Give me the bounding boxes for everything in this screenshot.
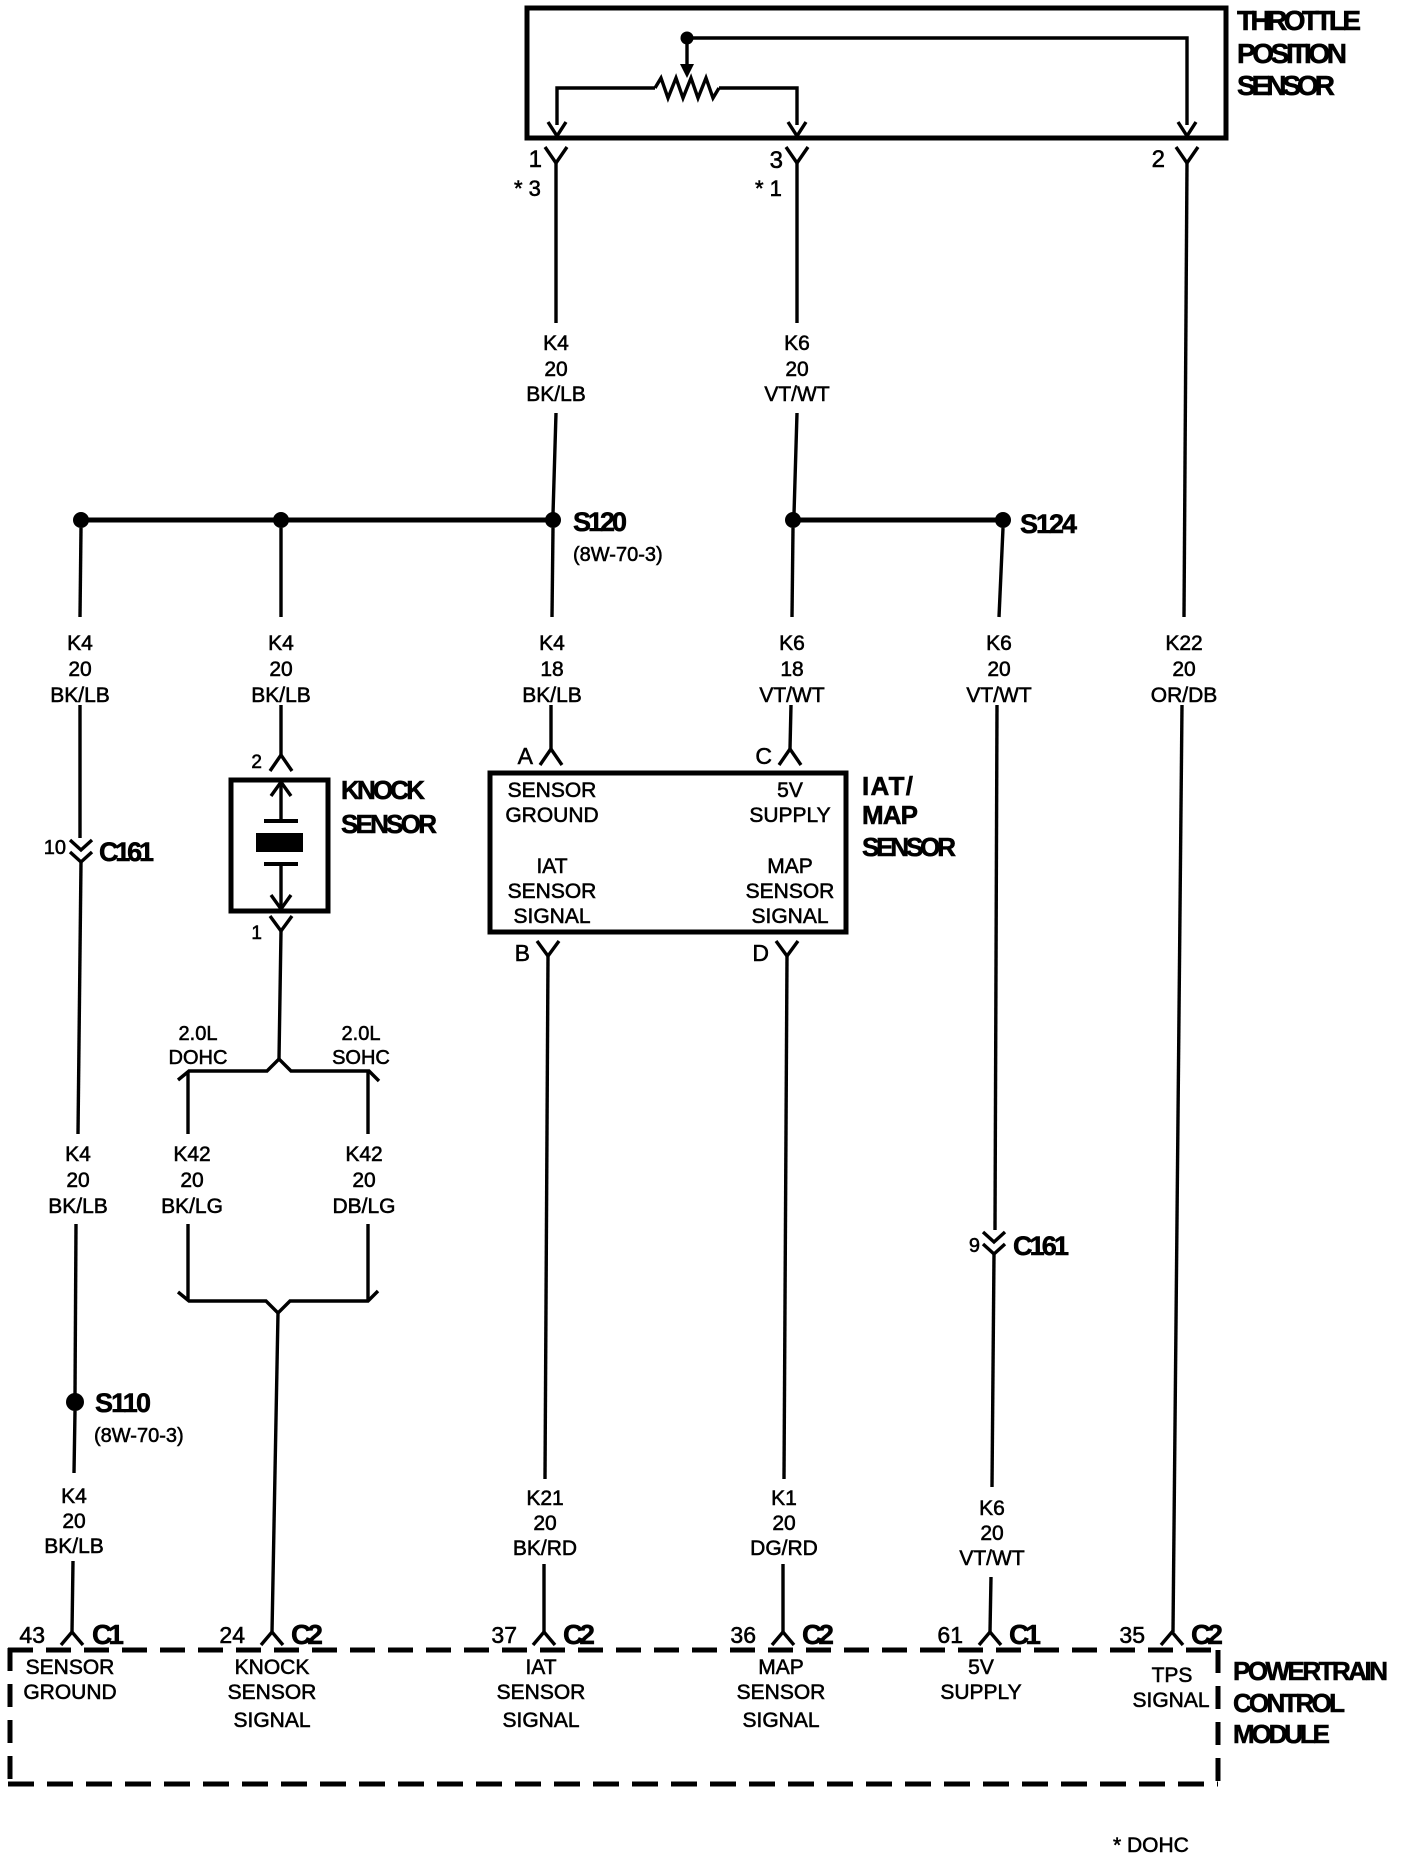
svg-text:BK/LB: BK/LB bbox=[526, 383, 586, 406]
PCM pin 37 C2 bbox=[533, 1632, 555, 1645]
svg-text:C: C bbox=[755, 743, 772, 769]
svg-text:SENSOR: SENSOR bbox=[497, 1681, 586, 1704]
wire MAP signal down bbox=[784, 956, 787, 1479]
svg-text:POSITION: POSITION bbox=[1237, 38, 1347, 69]
svg-text:K4: K4 bbox=[543, 332, 569, 355]
svg-text:D: D bbox=[752, 940, 769, 966]
svg-text:SIGNAL: SIGNAL bbox=[751, 905, 828, 928]
svg-text:C2: C2 bbox=[291, 1619, 323, 1650]
svg-text:20: 20 bbox=[1172, 658, 1195, 681]
PCM pin 36 C2 bbox=[772, 1632, 794, 1645]
svg-text:MAP: MAP bbox=[758, 1656, 804, 1679]
svg-text:SUPPLY: SUPPLY bbox=[940, 1681, 1021, 1704]
label K4 20 BK/LB bbox=[251, 632, 311, 707]
brace merge bottom bbox=[178, 1291, 378, 1313]
svg-text:C1: C1 bbox=[92, 1619, 124, 1650]
svg-text:SIGNAL: SIGNAL bbox=[502, 1709, 579, 1732]
arrow at pin 2 inside box bbox=[1178, 122, 1196, 136]
wire bbox=[75, 1224, 76, 1396]
svg-text:(8W-70-3): (8W-70-3) bbox=[573, 544, 663, 566]
svg-text:POWERTRAIN: POWERTRAIN bbox=[1233, 1656, 1388, 1686]
wire K6 from TPS pin 3 bbox=[795, 163, 798, 323]
svg-text:S124: S124 bbox=[1020, 509, 1077, 539]
svg-text:OR/DB: OR/DB bbox=[1151, 684, 1218, 707]
wire right lead to pin 3 bbox=[719, 88, 797, 125]
wire bbox=[790, 705, 791, 749]
svg-text:20: 20 bbox=[987, 658, 1010, 681]
svg-text:MAP: MAP bbox=[767, 855, 813, 878]
wire bbox=[549, 705, 552, 749]
svg-text:20: 20 bbox=[544, 358, 567, 381]
knock sensor internal arrow up bbox=[271, 782, 291, 796]
svg-text:9: 9 bbox=[969, 1235, 980, 1257]
svg-text:VT/WT: VT/WT bbox=[759, 684, 824, 707]
svg-text:K6: K6 bbox=[779, 632, 805, 655]
svg-text:SIGNAL: SIGNAL bbox=[233, 1709, 310, 1732]
svg-text:* 1: * 1 bbox=[755, 176, 782, 201]
svg-text:VT/WT: VT/WT bbox=[966, 684, 1031, 707]
wire column E 5V supply bbox=[999, 528, 1003, 617]
svg-text:20: 20 bbox=[785, 358, 808, 381]
wiper arrow bbox=[685, 42, 688, 64]
svg-text:K4: K4 bbox=[65, 1143, 91, 1166]
svg-text:20: 20 bbox=[62, 1510, 85, 1533]
wire bbox=[992, 1254, 994, 1487]
pin 1 TPS connector bbox=[545, 147, 567, 163]
wire to PCM pin 24 bbox=[272, 1313, 278, 1632]
IAT/MAP pin D connector bbox=[776, 941, 798, 956]
label K6 18 VT/WT bbox=[759, 632, 824, 707]
svg-text:18: 18 bbox=[540, 658, 563, 681]
PCM pin 24 C2 bbox=[261, 1632, 283, 1645]
wire column C below S120 bbox=[552, 528, 553, 617]
svg-text:KNOCK: KNOCK bbox=[235, 1656, 310, 1679]
svg-text:MODULE: MODULE bbox=[1233, 1719, 1330, 1749]
knock element bottom plate bbox=[264, 862, 298, 866]
svg-text:K4: K4 bbox=[268, 632, 294, 655]
svg-text:18: 18 bbox=[780, 658, 803, 681]
svg-text:K4: K4 bbox=[61, 1485, 87, 1508]
wire IAT signal down bbox=[545, 956, 548, 1479]
knock element top plate bbox=[264, 819, 298, 823]
svg-text:2: 2 bbox=[251, 752, 262, 773]
IAT/MAP pin A connector bbox=[540, 749, 562, 765]
svg-text:5V: 5V bbox=[968, 1656, 994, 1679]
svg-text:SENSOR: SENSOR bbox=[26, 1656, 115, 1679]
PCM pin 61 C1 bbox=[979, 1632, 1001, 1645]
label K22 20 OR/DB bbox=[1151, 632, 1218, 707]
svg-text:36: 36 bbox=[730, 1622, 756, 1648]
svg-text:K21: K21 bbox=[526, 1487, 563, 1510]
svg-text:BK/LG: BK/LG bbox=[161, 1195, 223, 1218]
svg-text:K6: K6 bbox=[979, 1497, 1005, 1520]
wire bbox=[78, 862, 81, 1134]
connector C161 pin 9 bbox=[983, 1232, 1005, 1242]
label K4 18 BK/LB bbox=[522, 632, 582, 707]
svg-text:K42: K42 bbox=[345, 1143, 382, 1166]
svg-text:BK/LB: BK/LB bbox=[48, 1195, 108, 1218]
arrow at pin 1 inside box bbox=[548, 122, 566, 136]
wire column A upper bbox=[80, 528, 81, 617]
label THROTTLE POSITION SENSOR bbox=[1237, 5, 1361, 101]
branch wire left bbox=[186, 1071, 189, 1134]
IAT/MAP sensor box bbox=[490, 773, 846, 932]
svg-text:TPS: TPS bbox=[1152, 1664, 1193, 1687]
svg-text:BK/LB: BK/LB bbox=[44, 1535, 104, 1558]
svg-text:KNOCK: KNOCK bbox=[341, 775, 425, 805]
throttle position sensor box bbox=[527, 8, 1226, 138]
svg-text:C161: C161 bbox=[99, 837, 154, 867]
wire left lead to pin 1 bbox=[557, 88, 655, 125]
svg-text:20: 20 bbox=[533, 1512, 556, 1535]
IAT/MAP pin C connector bbox=[779, 749, 801, 765]
svg-text:C2: C2 bbox=[802, 1619, 834, 1650]
wire bbox=[995, 705, 997, 1230]
svg-text:5V: 5V bbox=[777, 779, 803, 802]
wire bbox=[72, 1561, 73, 1632]
wire K4 from TPS pin 1 bbox=[554, 163, 557, 323]
wire bbox=[542, 1564, 545, 1632]
brace split 2.0L DOHC / SOHC bbox=[178, 1059, 379, 1081]
label K6 20 VT/WT bbox=[959, 1497, 1024, 1570]
svg-text:BK/LB: BK/LB bbox=[50, 684, 110, 707]
label K4 20 BK/LB bbox=[50, 632, 110, 707]
wire K22 from TPS pin 2 bbox=[1184, 163, 1187, 617]
svg-text:K6: K6 bbox=[784, 332, 810, 355]
label K4 20 BK/LB bbox=[526, 332, 586, 406]
svg-text:20: 20 bbox=[352, 1169, 375, 1192]
svg-text:20: 20 bbox=[269, 658, 292, 681]
svg-text:2.0L: 2.0L bbox=[179, 1023, 218, 1045]
IAT/MAP pin B connector bbox=[537, 941, 559, 956]
label KNOCK SENSOR bbox=[341, 775, 437, 839]
svg-text:BK/LB: BK/LB bbox=[522, 684, 582, 707]
svg-text:K4: K4 bbox=[67, 632, 93, 655]
label K42 20 DB/LG bbox=[332, 1143, 395, 1218]
knock sensor pin 2 connector bbox=[270, 755, 292, 771]
svg-text:GROUND: GROUND bbox=[23, 1681, 116, 1704]
knock sensor box bbox=[231, 780, 328, 911]
branch wire right lower bbox=[366, 1224, 369, 1301]
IAT/MAP box internal labels bbox=[505, 779, 834, 928]
svg-text:1: 1 bbox=[529, 146, 542, 173]
svg-text:SIGNAL: SIGNAL bbox=[513, 905, 590, 928]
svg-text:C2: C2 bbox=[563, 1619, 595, 1650]
wire bbox=[78, 705, 81, 838]
svg-text:20: 20 bbox=[68, 658, 91, 681]
svg-text:SIGNAL: SIGNAL bbox=[1132, 1689, 1209, 1712]
PCM pin 35 C2 bbox=[1161, 1632, 1183, 1645]
svg-text:K4: K4 bbox=[539, 632, 565, 655]
wire bbox=[990, 1577, 991, 1632]
svg-text:(8W-70-3): (8W-70-3) bbox=[94, 1425, 184, 1447]
label K4 20 BK/LB bbox=[44, 1485, 104, 1558]
label K6 20 VT/WT bbox=[966, 632, 1031, 707]
wire knock pin1 down bbox=[279, 931, 281, 1059]
svg-text:THROTTLE: THROTTLE bbox=[1237, 5, 1361, 36]
PCM internal labels bbox=[23, 1656, 1209, 1732]
wiper dot bbox=[681, 32, 694, 45]
svg-text:3: 3 bbox=[770, 147, 783, 174]
svg-text:43: 43 bbox=[19, 1622, 45, 1648]
svg-text:SENSOR: SENSOR bbox=[228, 1681, 317, 1704]
svg-text:SENSOR: SENSOR bbox=[862, 832, 956, 862]
knock sensor pin 1 connector bbox=[270, 916, 292, 931]
svg-text:20: 20 bbox=[980, 1522, 1003, 1545]
svg-text:K6: K6 bbox=[986, 632, 1012, 655]
connector C161 pin 10 bbox=[70, 840, 92, 850]
svg-text:37: 37 bbox=[491, 1622, 517, 1648]
svg-text:DOHC: DOHC bbox=[169, 1047, 228, 1069]
wire bbox=[781, 1564, 784, 1632]
svg-text:2: 2 bbox=[1152, 146, 1165, 173]
svg-text:1: 1 bbox=[251, 923, 262, 944]
wire wiper to pin 2 bbox=[687, 38, 1187, 125]
svg-text:SIGNAL: SIGNAL bbox=[742, 1709, 819, 1732]
label K42 20 BK/LG bbox=[161, 1143, 223, 1218]
wire bbox=[279, 705, 282, 755]
splice S120 bus bbox=[81, 518, 553, 523]
svg-text:C1: C1 bbox=[1009, 1619, 1041, 1650]
svg-text:SENSOR: SENSOR bbox=[1237, 70, 1335, 101]
svg-text:GROUND: GROUND bbox=[505, 804, 598, 827]
svg-text:IAT: IAT bbox=[536, 855, 567, 878]
splice S110 bbox=[66, 1393, 84, 1411]
svg-text:IAT: IAT bbox=[525, 1656, 556, 1679]
label K21 20 BK/RD bbox=[513, 1487, 577, 1560]
svg-text:SOHC: SOHC bbox=[332, 1047, 390, 1069]
svg-text:A: A bbox=[518, 743, 534, 769]
svg-text:SENSOR: SENSOR bbox=[508, 880, 597, 903]
knock piezo element bbox=[256, 833, 303, 852]
svg-text:* DOHC: * DOHC bbox=[1113, 1834, 1189, 1857]
wire column B upper bbox=[279, 528, 282, 617]
svg-text:BK/LB: BK/LB bbox=[251, 684, 311, 707]
svg-text:MAP: MAP bbox=[862, 800, 918, 830]
svg-text:SUPPLY: SUPPLY bbox=[749, 804, 830, 827]
potentiometer R1 in TPS bbox=[655, 78, 719, 98]
svg-text:10: 10 bbox=[44, 837, 66, 859]
svg-text:DG/RD: DG/RD bbox=[750, 1537, 818, 1560]
svg-text:VT/WT: VT/WT bbox=[764, 383, 829, 406]
label IAT/ MAP SENSOR bbox=[862, 771, 956, 862]
svg-text:61: 61 bbox=[937, 1622, 963, 1648]
label POWERTRAIN CONTROL MODULE bbox=[1233, 1656, 1388, 1749]
svg-text:2.0L: 2.0L bbox=[342, 1023, 381, 1045]
note * DOHC bbox=[1113, 1834, 1189, 1857]
svg-text:SENSOR: SENSOR bbox=[508, 779, 597, 802]
svg-text:S120: S120 bbox=[573, 507, 627, 537]
pin 2 TPS connector bbox=[1176, 147, 1198, 163]
svg-text:20: 20 bbox=[180, 1169, 203, 1192]
svg-text:K42: K42 bbox=[173, 1143, 210, 1166]
svg-text:C161: C161 bbox=[1013, 1231, 1069, 1261]
svg-text:20: 20 bbox=[66, 1169, 89, 1192]
branch wire left lower bbox=[186, 1224, 189, 1301]
knock sensor internal arrow down bbox=[279, 864, 282, 907]
svg-text:SENSOR: SENSOR bbox=[746, 880, 835, 903]
wire bbox=[794, 413, 797, 514]
svg-text:K1: K1 bbox=[771, 1487, 797, 1510]
svg-text:CONTROL: CONTROL bbox=[1233, 1688, 1345, 1718]
svg-text:DB/LG: DB/LG bbox=[332, 1195, 395, 1218]
arrow at pin 3 inside box bbox=[788, 122, 806, 136]
label K4 20 BK/LB bbox=[48, 1143, 108, 1218]
wire bbox=[74, 1411, 75, 1473]
wire column D below S124 bbox=[792, 528, 793, 617]
pin 3 TPS connector bbox=[786, 147, 808, 163]
svg-text:BK/RD: BK/RD bbox=[513, 1537, 577, 1560]
svg-text:24: 24 bbox=[219, 1622, 245, 1648]
branch wire right bbox=[366, 1071, 369, 1134]
svg-text:C2: C2 bbox=[1191, 1619, 1223, 1650]
svg-text:B: B bbox=[515, 940, 530, 966]
wire bbox=[553, 413, 556, 514]
label K6 20 VT/WT bbox=[764, 332, 829, 406]
PCM pin 43 C1 bbox=[61, 1632, 83, 1645]
svg-text:* 3: * 3 bbox=[514, 176, 541, 201]
wire bbox=[1173, 705, 1182, 1632]
svg-text:VT/WT: VT/WT bbox=[959, 1547, 1024, 1570]
svg-text:SENSOR: SENSOR bbox=[737, 1681, 826, 1704]
svg-text:S110: S110 bbox=[95, 1388, 151, 1418]
svg-text:SENSOR: SENSOR bbox=[341, 809, 437, 839]
svg-text:20: 20 bbox=[772, 1512, 795, 1535]
powertrain control module box bbox=[8, 1648, 1218, 1784]
label K1 20 DG/RD bbox=[750, 1487, 818, 1560]
svg-text:IAT/: IAT/ bbox=[862, 771, 913, 801]
splice S124 bus bbox=[793, 518, 1003, 523]
svg-text:K22: K22 bbox=[1165, 632, 1202, 655]
svg-text:35: 35 bbox=[1119, 1622, 1145, 1648]
